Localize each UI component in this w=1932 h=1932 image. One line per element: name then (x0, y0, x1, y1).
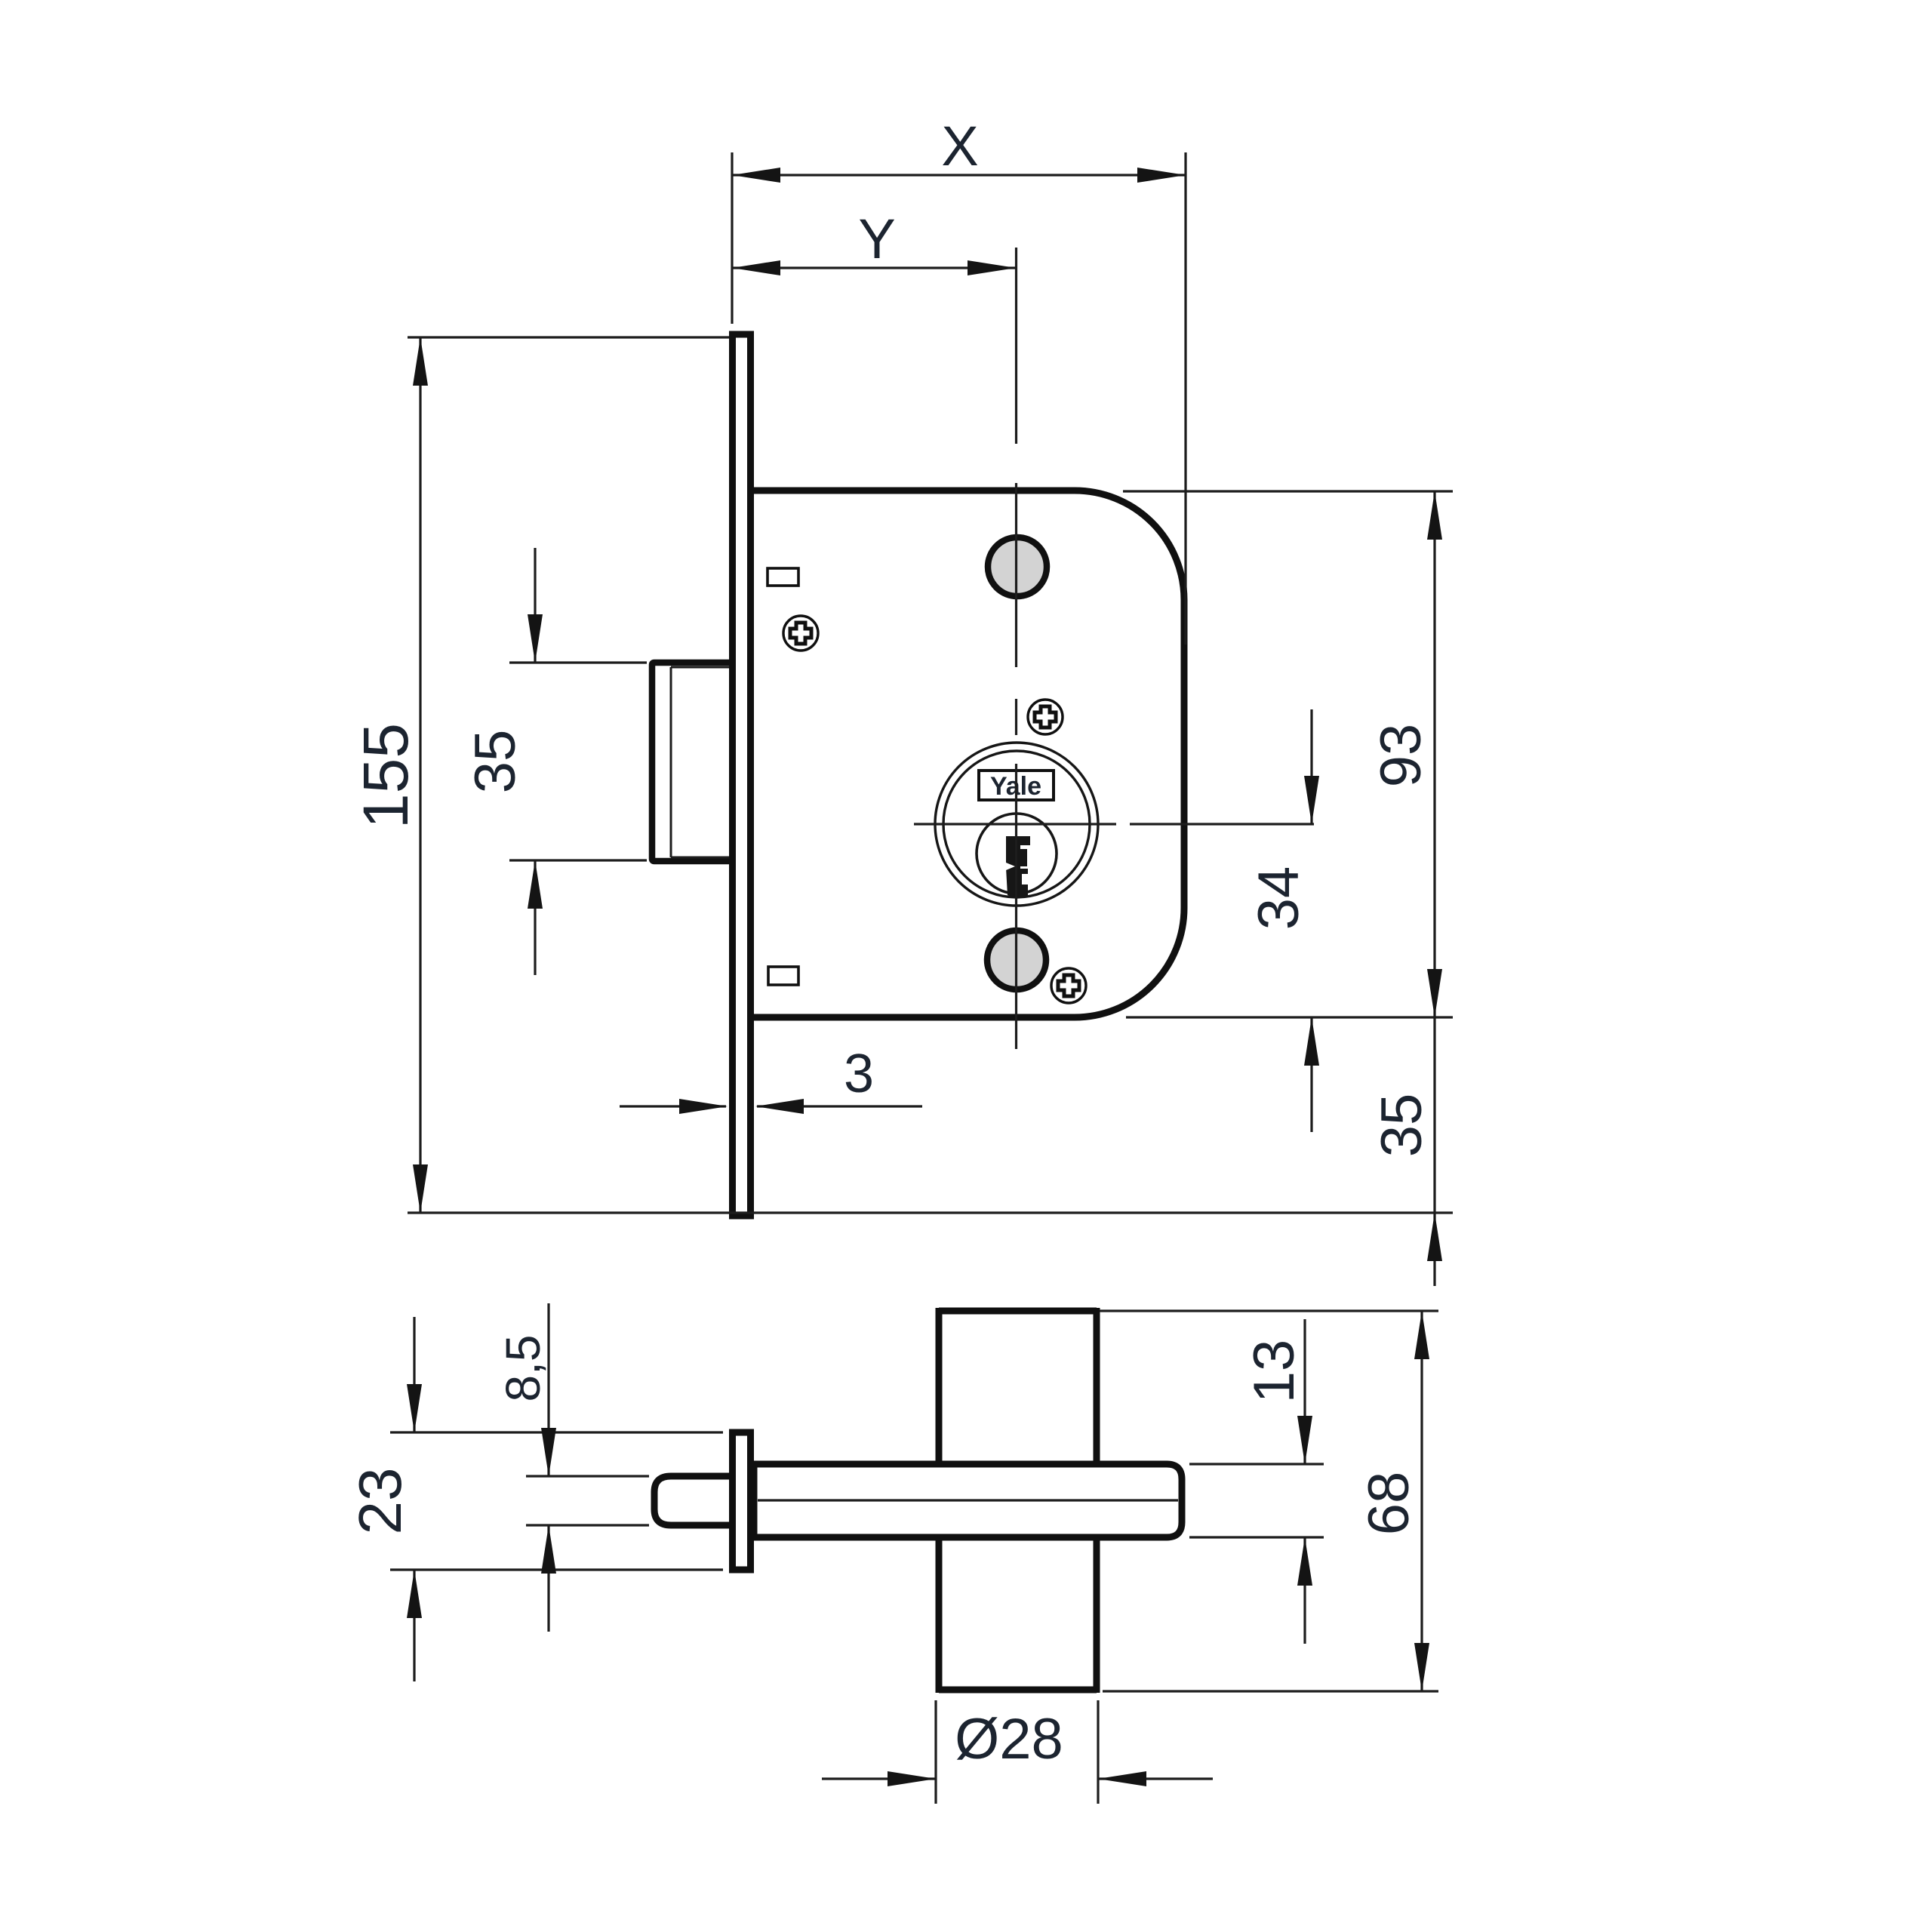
35 bolt dimension (arrows outside) (534, 548, 536, 663)
vertical centerline through holes/cylinder (1015, 248, 1017, 444)
13 (1303, 1319, 1306, 1464)
svg-text:X: X (941, 115, 978, 177)
phillips screw top-left (783, 616, 818, 651)
svg-text:68: 68 (1357, 1472, 1421, 1536)
svg-text:35: 35 (1370, 1094, 1434, 1158)
93 / 35-right shared dimension line (1433, 491, 1435, 1213)
8,5 (547, 1303, 549, 1476)
svg-text:35: 35 (463, 730, 528, 794)
svg-text:13: 13 (1242, 1340, 1306, 1404)
155 dimension (419, 337, 421, 1213)
X dimension (732, 174, 1186, 176)
small rectangle bottom (768, 967, 798, 985)
svg-text:155: 155 (350, 723, 421, 829)
lock body (rounded right corners) (750, 491, 1184, 1017)
flange (faceplate in section) (733, 1432, 751, 1570)
bottom pin hole (gray) (987, 931, 1046, 989)
svg-text:34: 34 (1247, 866, 1311, 931)
cylinder barrel (vertical rectangle), edges interrupted by shaft (939, 1308, 1097, 1693)
bolt stub (left, rounded end) (654, 1476, 740, 1525)
cylinder plug (977, 814, 1057, 894)
svg-text:8,5: 8,5 (496, 1335, 550, 1402)
latch bolt protruding left of faceplate (652, 663, 740, 861)
shaft (horizontal bar with rounded right end) (754, 1464, 1182, 1537)
phillips screw middle (above cylinder) (1028, 700, 1063, 734)
svg-text:Y: Y (858, 208, 895, 270)
155 top ext (408, 1211, 1453, 1214)
68 (1420, 1311, 1423, 1691)
svg-text:93: 93 (1369, 724, 1433, 788)
svg-text:3: 3 (844, 1044, 874, 1104)
Ø28 (822, 1777, 936, 1780)
small rectangle top (near faceplate) (768, 568, 798, 586)
X right ext (408, 336, 729, 338)
faceplate (tall thin plate) (733, 334, 751, 1216)
35 bolt bottom ext (1123, 490, 1453, 492)
X left ext (1184, 152, 1186, 645)
155 bottom / 35-right bottom ext (509, 661, 647, 663)
phillips screw bottom-right (1051, 968, 1086, 1003)
svg-text:Ø28: Ø28 (955, 1707, 1063, 1771)
34 dimension (arrows outside) (1310, 709, 1312, 824)
horizontal centerline through cylinder (914, 823, 1116, 825)
35 bolt top ext (509, 859, 647, 861)
body top right ext (1126, 1016, 1453, 1018)
23 (413, 1317, 415, 1432)
svg-text:23: 23 (346, 1468, 414, 1535)
3 dimension (faceplate thickness, arrows outside) (620, 1105, 726, 1107)
cylinder outer double ring (935, 743, 1098, 906)
Yale logo box (979, 771, 1054, 801)
Y dimension (732, 266, 1016, 269)
key silhouette in plug (1006, 836, 1031, 898)
top pin hole (gray) (988, 537, 1047, 596)
